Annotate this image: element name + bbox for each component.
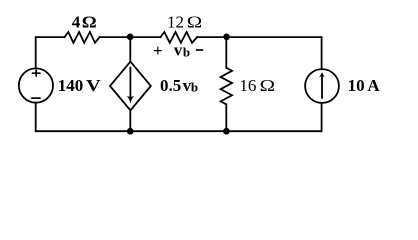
voltage source minus sign xyxy=(32,97,40,99)
label minus polarity of vb xyxy=(197,49,203,51)
voltage source V1 circle xyxy=(19,68,53,102)
svg-text:140: 140 xyxy=(58,76,83,95)
wire 16-ohm top stem xyxy=(225,37,227,68)
svg-text:+: + xyxy=(153,41,163,60)
svg-text:0.5: 0.5 xyxy=(160,76,181,95)
svg-text:12: 12 xyxy=(167,12,184,31)
svg-text:b: b xyxy=(183,44,190,59)
dependent source U1 diamond xyxy=(110,62,151,111)
node B junction dot top-right xyxy=(223,34,230,41)
svg-text:10: 10 xyxy=(348,76,365,95)
svg-text:Ω: Ω xyxy=(187,13,202,32)
current source arrowhead xyxy=(319,72,325,77)
current source arrow shaft xyxy=(321,76,323,98)
wire dependent source top stem xyxy=(129,37,131,61)
resistor R2 12-ohm zigzag xyxy=(161,32,198,43)
svg-text:A: A xyxy=(367,76,380,95)
dependent source arrow shaft xyxy=(129,68,131,100)
wire top rail right segment xyxy=(197,36,322,38)
svg-text:b: b xyxy=(191,80,198,95)
node D junction dot bottom-right xyxy=(223,128,230,135)
svg-text:V: V xyxy=(86,76,101,95)
wire left rail upper xyxy=(35,37,37,67)
wire 16-ohm bottom stem xyxy=(225,104,227,131)
svg-text:Ω: Ω xyxy=(260,77,275,96)
svg-text:16: 16 xyxy=(239,76,256,95)
wire top rail middle segment xyxy=(100,36,161,38)
svg-text:Ω: Ω xyxy=(82,12,97,31)
wire top rail left segment xyxy=(36,36,65,38)
node A junction dot top-left xyxy=(127,34,134,41)
svg-text:v: v xyxy=(174,41,183,60)
current source I1 circle xyxy=(305,69,339,103)
dependent source arrowhead xyxy=(126,96,134,104)
resistor R1 4-ohm zigzag xyxy=(65,32,100,43)
svg-text:4: 4 xyxy=(72,12,81,31)
resistor R3 16-ohm vertical zigzag xyxy=(221,68,232,105)
wire right rail upper xyxy=(321,37,323,69)
wire dependent source bottom stem xyxy=(129,110,131,131)
node C junction dot bottom-left xyxy=(127,128,134,135)
voltage source plus sign xyxy=(33,71,40,76)
wire right rail lower xyxy=(321,103,323,131)
wire bottom rail xyxy=(36,130,322,132)
wire left rail lower xyxy=(35,104,37,132)
